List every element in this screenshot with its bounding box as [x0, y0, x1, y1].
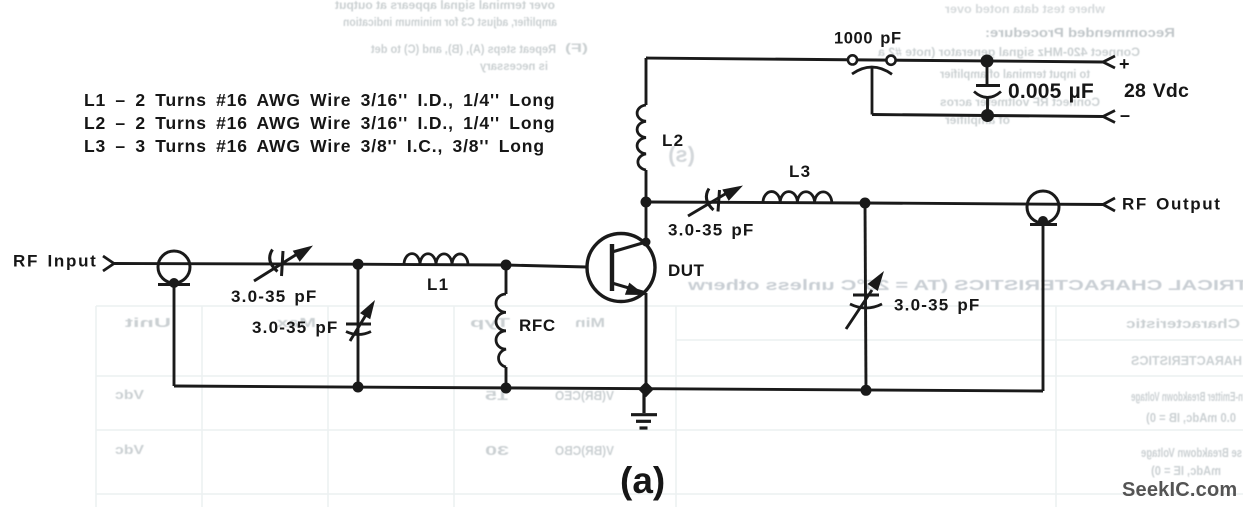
node collector junction	[642, 238, 651, 247]
svg-text:–: –	[1120, 105, 1130, 125]
svg-text:(a): (a)	[620, 460, 665, 501]
node bottom rail / C4	[981, 109, 994, 122]
terminal + arrowhead	[1103, 56, 1115, 68]
svg-text:V(BR)CEO: V(BR)CEO	[555, 388, 614, 403]
svg-text:Vdc: Vdc	[115, 442, 144, 457]
transistor Q1 DUT	[587, 234, 655, 302]
svg-text:L3 – 3 Turns #16 AWG Wire 3/8': L3 – 3 Turns #16 AWG Wire 3/8'' I.C., 3/…	[84, 136, 545, 156]
svg-text:Typ: Typ	[470, 315, 510, 330]
mirrored figure label (b)	[668, 142, 695, 167]
svg-text:over terminal signal appears a: over terminal signal appears at output	[335, 0, 555, 12]
node upper junction	[641, 197, 652, 208]
svg-text:+: +	[1119, 54, 1130, 74]
inductor L3	[763, 192, 832, 203]
svg-text:3.0-35 pF: 3.0-35 pF	[231, 287, 318, 306]
capacitor C1 trimmer 3.0-35 pF (series, input)	[254, 246, 313, 282]
capacitor C2 trimmer 3.0-35 pF (shunt, input)	[346, 300, 375, 341]
svg-text:DUT: DUT	[668, 261, 705, 280]
svg-text:Vdc: Vdc	[115, 387, 144, 402]
svg-text:Connect 420-MHz signal generat: Connect 420-MHz signal generator (note #…	[877, 47, 1140, 59]
svg-text:3.0-35 pF: 3.0-35 pF	[668, 221, 755, 240]
wire collector to upper node	[645, 202, 648, 242]
svg-text:RF Input: RF Input	[13, 252, 98, 271]
svg-text:n-Emitter Breakdown Voltage: n-Emitter Breakdown Voltage	[1131, 390, 1243, 404]
svg-text:L2: L2	[662, 131, 684, 150]
RF input arrowhead	[103, 256, 114, 271]
svg-text:Repeat steps (A), (B), and (C): Repeat steps (A), (B), and (C) to det	[371, 44, 556, 56]
capacitor feedthrough output	[1027, 191, 1059, 226]
svg-text:(F): (F)	[565, 43, 588, 55]
svg-text:0.0 mAdc, IB = 0): 0.0 mAdc, IB = 0)	[1146, 411, 1236, 425]
wire input feedthrough to ground rail	[173, 285, 176, 387]
svg-text:L1 – 2 Turns #16 AWG Wire 3/16: L1 – 2 Turns #16 AWG Wire 3/16'' I.D., 1…	[84, 90, 555, 110]
capacitor C6 trimmer 3.0-35 pF (shunt, output)	[846, 271, 884, 329]
svg-text:L3: L3	[789, 162, 811, 181]
node rail junction trimmer2	[353, 382, 364, 393]
svg-text:30: 30	[485, 443, 509, 458]
wire RFC branch	[505, 265, 508, 388]
RF output arrowhead	[1103, 198, 1115, 211]
svg-text:se Breakdown Voltage: se Breakdown Voltage	[1141, 446, 1242, 460]
ground symbol	[631, 389, 657, 428]
svg-text:28 Vdc: 28 Vdc	[1124, 80, 1189, 102]
svg-text:1000 pF: 1000 pF	[834, 30, 902, 48]
wire output feedthrough to ground rail	[1042, 225, 1045, 392]
svg-text:Unit: Unit	[124, 315, 171, 330]
capacitor C5 feedthrough 1000 pF	[848, 55, 896, 114]
svg-text:L2 – 2 Turns #16 AWG Wire 3/16: L2 – 2 Turns #16 AWG Wire 3/16'' I.D., 1…	[84, 113, 555, 133]
wire output line	[646, 202, 1103, 205]
wire emitter to ground rail	[645, 293, 648, 389]
node top rail / C4	[981, 55, 994, 68]
inductor L2	[637, 105, 646, 170]
node junction input/trimmer2	[353, 259, 364, 270]
svg-text:0.005 µF: 0.005 µF	[1008, 80, 1094, 103]
capacitor C4 0.005 uF	[974, 61, 1001, 116]
svg-text:Recommended Procedure:: Recommended Procedure:	[985, 25, 1175, 40]
svg-text:3.0-35 pF: 3.0-35 pF	[894, 296, 981, 315]
node rail junction emitter	[638, 382, 654, 398]
capacitor C3 trimmer 3.0-35 pF (series, output)	[688, 186, 743, 217]
node junction L1/RFC	[501, 260, 512, 271]
top-right mirrored paragraph	[944, 4, 1106, 16]
wire ground rail	[174, 386, 1043, 391]
wire trimmer4 branch	[865, 203, 866, 390]
svg-text:RFC: RFC	[519, 316, 556, 335]
wire trimmer2 branch	[357, 264, 360, 387]
capacitor feedthrough input	[158, 251, 190, 288]
node junction L3/trimmer4	[860, 198, 871, 209]
svg-text:L1: L1	[427, 275, 449, 294]
svg-text:SeekIC.com: SeekIC.com	[1122, 479, 1237, 501]
svg-text:3.0-35 pF: 3.0-35 pF	[252, 318, 339, 337]
wire L2 vertical segments	[645, 58, 648, 202]
node rail junction RFC	[501, 383, 512, 394]
faint table grid	[96, 306, 1243, 507]
wire negative supply rail	[872, 115, 1103, 117]
coil winding data note	[84, 90, 555, 156]
svg-text:TRICAL CHARACTERISTICS (TA = 2: TRICAL CHARACTERISTICS (TA = 25°C unless…	[688, 277, 1243, 294]
svg-text:Min: Min	[575, 315, 605, 330]
svg-text:mAdc, IE = 0): mAdc, IE = 0)	[1151, 464, 1221, 478]
top-centre mirrored paragraph	[335, 0, 555, 12]
svg-text:HARACTERISTICS: HARACTERISTICS	[1131, 353, 1242, 368]
terminal - arrowhead	[1103, 111, 1115, 123]
svg-text:RF Output: RF Output	[1122, 195, 1221, 214]
svg-text:amplifier, adjust C3 for minim: amplifier, adjust C3 for minimum indicat…	[343, 17, 557, 29]
svg-text:is necessary: is necessary	[479, 61, 548, 73]
inductor L1	[404, 254, 468, 265]
wire input line	[114, 264, 587, 268]
svg-text:V(BR)CBO: V(BR)CBO	[555, 443, 614, 458]
svg-text:where test data noted over: where test data noted over	[944, 4, 1106, 16]
inductor RFC	[496, 294, 506, 367]
node rail junction trimmer4	[861, 385, 872, 396]
svg-text:Characteristic: Characteristic	[1126, 316, 1240, 331]
wire top supply rail	[646, 58, 1103, 62]
